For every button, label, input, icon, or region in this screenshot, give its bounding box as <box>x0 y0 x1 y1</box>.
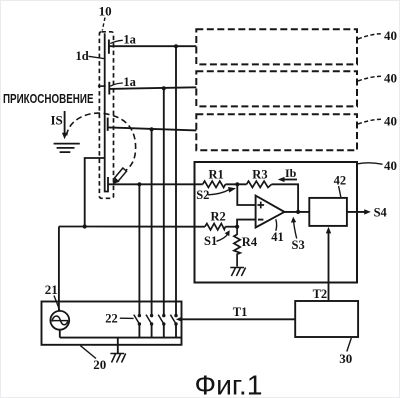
block 20 <box>42 302 182 345</box>
wire lead 3 to block 40c <box>108 127 197 130</box>
wire column c1 <box>138 184 140 315</box>
touch panel 10 (dashed outline) <box>99 32 113 199</box>
wire R2 to node <box>225 226 237 228</box>
svg-text:40: 40 <box>384 158 397 173</box>
node c4 <box>174 44 178 48</box>
leader 22 <box>120 317 134 319</box>
ground under box 20 (hatched) <box>110 354 125 363</box>
leader for 1d <box>89 56 105 58</box>
leader 21 <box>54 296 60 311</box>
wire column c4 <box>175 46 177 315</box>
node c2 <box>150 127 154 131</box>
svg-text:40: 40 <box>384 28 397 43</box>
S3 arrow <box>294 221 297 239</box>
block 30 <box>295 301 358 337</box>
svg-text:40: 40 <box>384 114 397 129</box>
small left tick at electrode 2 <box>98 85 106 87</box>
wire lead 2 to block 40b <box>109 87 196 89</box>
resistor R1 <box>203 181 226 187</box>
IS ground <box>54 144 80 153</box>
svg-text:1d: 1d <box>76 49 89 63</box>
switch 4 <box>174 314 177 317</box>
leader 41 <box>275 219 278 231</box>
electrode bar 3 <box>107 118 109 131</box>
node R1/R3 <box>235 182 239 186</box>
block 40d (solid box) <box>195 162 358 283</box>
block 42 <box>309 198 347 226</box>
node S3 <box>296 210 300 214</box>
svg-text:Ib: Ib <box>285 166 297 180</box>
leader 42 <box>339 186 341 198</box>
wire to op-amp - input <box>237 220 256 227</box>
resistor R2 <box>205 224 225 230</box>
svg-text:1a: 1a <box>123 33 136 47</box>
touch arrowhead <box>113 178 120 185</box>
svg-text:S2: S2 <box>196 188 209 202</box>
svg-text:R1: R1 <box>209 167 224 181</box>
svg-text:41: 41 <box>271 230 284 244</box>
svg-text:22: 22 <box>105 312 118 326</box>
svg-text:S4: S4 <box>374 206 388 220</box>
svg-text:S3: S3 <box>292 238 305 252</box>
resistor R3 <box>247 181 272 187</box>
electrode 1a (first) bar <box>108 40 110 54</box>
svg-text:R3: R3 <box>252 167 267 181</box>
ground stub from bus <box>117 338 119 354</box>
wire lead 4 to R1 <box>108 183 203 185</box>
wire node to source <box>59 227 85 312</box>
svg-text:R2: R2 <box>211 209 226 223</box>
wire R1 to junction and R3 <box>225 183 246 185</box>
node at junction <box>83 224 87 228</box>
svg-text:ПРИКОСНОВЕНИЕ: ПРИКОСНОВЕНИЕ <box>3 92 94 106</box>
svg-text:T1: T1 <box>233 305 248 319</box>
svg-text:21: 21 <box>45 282 58 297</box>
T1 wire with arrow <box>180 318 296 320</box>
touch arc (dashed) <box>67 113 136 171</box>
svg-text:R4: R4 <box>242 235 258 249</box>
switch 3 <box>162 314 165 317</box>
svg-text:10: 10 <box>99 3 112 18</box>
svg-text:30: 30 <box>339 351 352 366</box>
block 40c (dashed) <box>196 114 357 150</box>
svg-text:1a: 1a <box>123 75 136 89</box>
S2 arrow <box>208 190 230 195</box>
wire column c2 <box>151 129 153 315</box>
wire R3 to feedback corner <box>272 184 299 212</box>
switch 1 <box>138 314 141 317</box>
block 40a (dashed) <box>196 29 357 64</box>
leader 40d <box>358 163 383 165</box>
svg-text:IS: IS <box>51 113 63 128</box>
S1 arrow <box>217 234 228 242</box>
Ib arrow <box>282 179 298 181</box>
svg-text:T2: T2 <box>313 287 328 301</box>
electrode 1a (second) bar <box>108 82 110 95</box>
leader 20 <box>80 346 96 359</box>
wire lead 1 to block 40a <box>109 45 196 47</box>
block 40b (dashed) <box>196 71 357 106</box>
touch arrow shaft (outlined) <box>114 168 126 181</box>
leader 40b (dashed) <box>358 76 383 81</box>
leader for 1a first <box>110 40 123 43</box>
svg-text:40: 40 <box>384 71 397 86</box>
T2 arrow into 42 <box>328 230 330 301</box>
leader 30 <box>347 338 352 352</box>
AC source 21 <box>50 311 69 330</box>
leader 40a (dashed) <box>358 34 383 39</box>
wire from 1d to source node <box>85 158 105 227</box>
ground under R4 (hatched) <box>230 268 245 277</box>
source to bus wire <box>59 330 61 338</box>
wire to op-amp + input <box>237 184 255 205</box>
svg-text:20: 20 <box>93 357 106 372</box>
svg-text:Фиг.1: Фиг.1 <box>195 370 263 398</box>
leader for 10 (dashed) <box>102 18 105 31</box>
node c3 <box>162 86 166 90</box>
leader 40c (dashed) <box>358 119 383 124</box>
electrode 1d (long vertical) <box>105 33 108 191</box>
resistor R4 (vertical) <box>234 227 240 267</box>
wire node to R2 <box>85 226 205 228</box>
svg-text:S1: S1 <box>204 234 217 248</box>
op-amp output wire <box>284 211 309 213</box>
leader for 1a second <box>110 83 123 86</box>
wire column c3 <box>163 88 165 315</box>
svg-text:42: 42 <box>334 174 347 188</box>
IS arrow <box>64 111 66 135</box>
node c1 <box>137 182 141 186</box>
node R2/R4 <box>235 225 239 229</box>
op-amp 41 <box>256 196 285 228</box>
bus wire <box>60 337 182 339</box>
switch 2 <box>150 314 153 317</box>
S4 output arrow <box>347 211 367 213</box>
